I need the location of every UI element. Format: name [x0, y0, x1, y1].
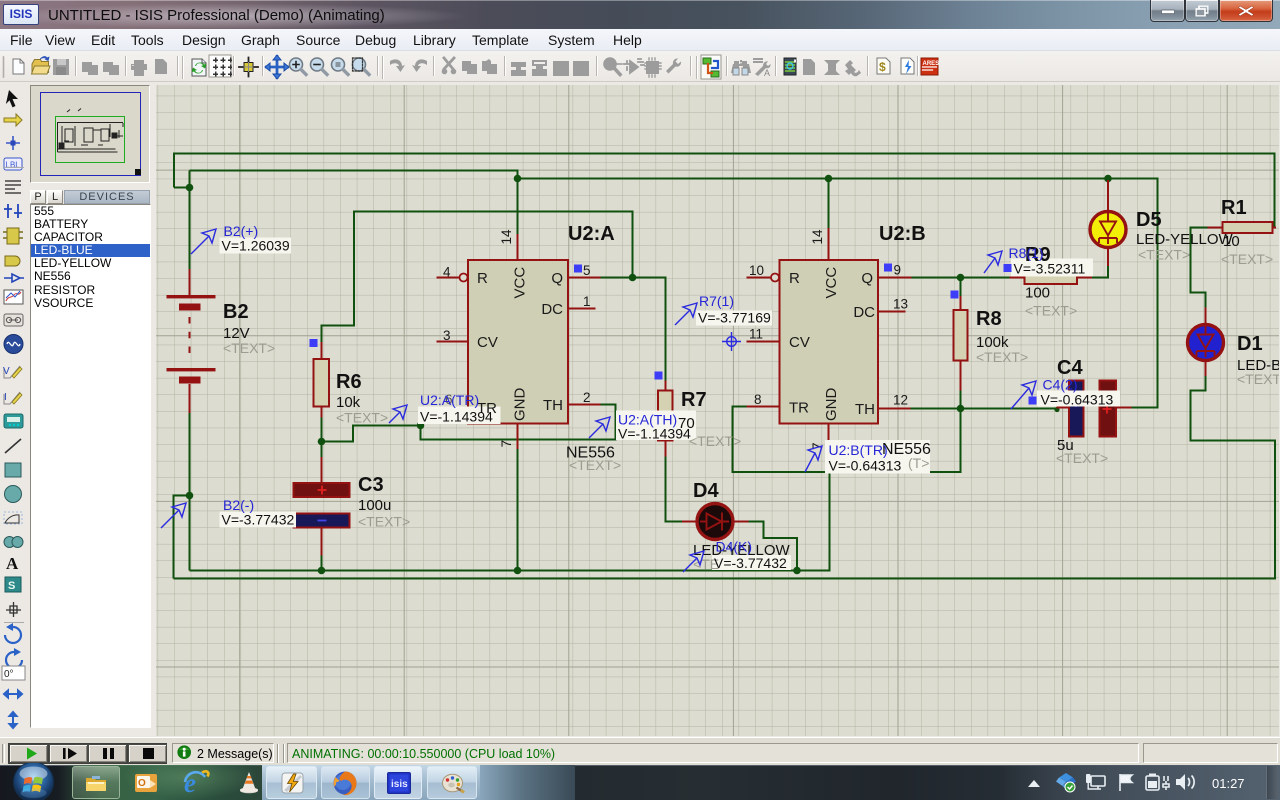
svg-text:$: $: [879, 60, 886, 74]
chip U2:B body: [780, 260, 879, 424]
handle R7: [655, 372, 663, 380]
svg-text:CV: CV: [477, 334, 498, 351]
svg-text:(T>: (T>: [908, 455, 929, 471]
handle R9: [1004, 264, 1012, 272]
capacitor C4 plus plate: [1100, 381, 1117, 437]
refresh: [192, 59, 206, 76]
svg-text:0°: 0°: [4, 669, 14, 680]
wire U2:B TH pin12 to junction: [911, 408, 961, 410]
resistor R8 leads: [960, 296, 962, 391]
U2:B R bubble: [771, 274, 779, 282]
svg-text:2: 2: [583, 390, 591, 405]
wire R9 right to D5: [1092, 266, 1108, 278]
junction at B2 top: [186, 184, 194, 192]
resistor R9 leads: [1010, 277, 1093, 279]
svg-text:GND: GND: [823, 388, 840, 422]
svg-text:R7: R7: [681, 389, 707, 411]
svg-text:<TEXT>: <TEXT>: [976, 349, 1028, 365]
junction R6/C3/TR: [318, 438, 326, 446]
svg-text:LED-YELLOW: LED-YELLOW: [1136, 231, 1234, 248]
svg-text:<TEXT>: <TEXT>: [1056, 450, 1108, 466]
binoculars: [731, 60, 751, 75]
U2:B VCC GND leads: [828, 228, 830, 446]
svg-text:5: 5: [583, 263, 591, 278]
junction U2:A GND ground: [514, 567, 522, 575]
svg-text:1: 1: [583, 294, 591, 309]
svg-text:<TEXT>: <TEXT>: [1025, 303, 1077, 319]
LED D1: [1188, 325, 1224, 361]
BOM: [877, 58, 890, 74]
svg-text:R8: R8: [976, 308, 1002, 330]
SCHEMATIC CANVAS: [156, 85, 1279, 736]
ERC: [901, 58, 914, 74]
wire TR branch down to TH pin2: [421, 405, 616, 440]
battery B2 plates: [167, 295, 216, 384]
undo redo: [390, 57, 681, 77]
svg-text:R6: R6: [336, 371, 362, 393]
probe name labels blue: [223, 223, 1078, 555]
svg-text:I: I: [4, 392, 7, 403]
svg-text:VCC: VCC: [823, 267, 840, 299]
svg-text:4: 4: [443, 265, 451, 280]
svg-text:R: R: [789, 270, 800, 287]
svg-text:100: 100: [1025, 285, 1050, 302]
chip pin names and numbers: [477, 267, 875, 421]
wire lower ground rail to D1: [174, 376, 1276, 579]
junction TR/TH node: [417, 422, 425, 430]
router pressed: [701, 55, 721, 79]
svg-text:C4(2): C4(2): [1043, 377, 1078, 393]
battery B2 leads: [189, 269, 191, 295]
capacitor C3 plus plate: [294, 483, 350, 497]
wire junction to R7 top: [633, 278, 666, 381]
junction Q9/R8/R9 node: [957, 274, 965, 282]
resistor R7 body: [658, 391, 673, 441]
battery B2 dashes: [189, 317, 191, 353]
wire R1 left to D1 top: [1191, 228, 1208, 308]
DEVICES: [30, 190, 46, 204]
handle R6: [310, 339, 318, 347]
resistor R9 body: [1025, 271, 1078, 284]
svg-text:V=-3.77432: V=-3.77432: [222, 512, 295, 528]
svg-text:A: A: [6, 554, 19, 573]
svg-text:<TEXT: <TEXT: [1237, 371, 1279, 387]
wire B down-stub to B2: [189, 171, 191, 188]
svg-text:13: 13: [893, 297, 908, 312]
svg-text:12: 12: [893, 393, 908, 408]
resistor R7 leads: [665, 381, 667, 457]
svg-text:14: 14: [810, 229, 825, 245]
svg-text:U2:A(TR): U2:A(TR): [420, 392, 479, 408]
handle R8: [951, 291, 959, 299]
svg-text:O: O: [138, 778, 146, 789]
wire upper ground rail: [190, 446, 830, 571]
junction Q1/R7 node: [629, 274, 637, 282]
svg-text:TH: TH: [543, 397, 563, 414]
probe arrow B2(+): [191, 229, 216, 254]
svg-text:<TEXT>: <TEXT>: [336, 410, 388, 426]
wire R6 top to net Q1: [322, 212, 633, 343]
wire B2 top lead: [189, 188, 191, 270]
svg-text:11: 11: [749, 327, 763, 342]
svg-text:V: V: [3, 366, 10, 377]
svg-text:V=-0.64313: V=-0.64313: [1041, 392, 1114, 408]
svg-text:<TEXT>: <TEXT>: [1221, 251, 1273, 267]
pan: [267, 57, 288, 78]
svg-text:9: 9: [894, 263, 902, 278]
junction TH12/R8/C4 node: [957, 405, 965, 413]
LEFT COLUMN ICONS: [0, 82, 28, 737]
capacitor C4 leads: [1057, 407, 1132, 409]
svg-text:V=1.26039: V=1.26039: [222, 238, 290, 254]
junction D4 ground: [793, 567, 801, 575]
chip U2:A body: [468, 260, 568, 424]
svg-text:A: A: [764, 68, 770, 78]
svg-text:<TEXT>: <TEXT>: [1138, 247, 1190, 263]
svg-text:isis: isis: [391, 779, 408, 790]
probe arrow C4(2): [1011, 381, 1036, 409]
wire C3 bottom: [321, 556, 323, 571]
property tool: [754, 59, 762, 62]
grid pressed: [209, 55, 231, 77]
origin: [239, 58, 258, 77]
wire U2:B VCC drop: [828, 179, 830, 229]
wire D4 right to ground rail: [749, 522, 798, 571]
U2:B pin leads: [747, 278, 912, 409]
tray icons: [1026, 778, 1042, 790]
chip type labels: [566, 441, 931, 462]
svg-text:10k: 10k: [336, 394, 361, 411]
import/export: [82, 59, 167, 76]
probe arrow U2:A(TR): [389, 405, 407, 423]
svg-text:<TEXT>: <TEXT>: [358, 514, 410, 530]
LED D4: [697, 504, 733, 540]
wire U2:A VCC drop: [517, 179, 519, 235]
svg-text:V=-1.14394: V=-1.14394: [420, 409, 493, 425]
wire R7 bottom to D4: [666, 457, 683, 522]
svg-text:TR: TR: [789, 400, 809, 417]
ARES: [921, 58, 938, 75]
svg-text:DC: DC: [541, 301, 563, 318]
svg-text:U2:A: U2:A: [568, 223, 615, 245]
svg-text:V=-3.52311: V=-3.52311: [1014, 261, 1086, 277]
start orb: [12, 763, 56, 800]
grey TEXT placeholders: [223, 247, 1280, 573]
MINIMAP: [30, 85, 150, 183]
svg-text:<TEXT>: <TEXT>: [689, 433, 741, 449]
svg-text:B2: B2: [223, 301, 249, 323]
handle U2:A Q wire: [574, 265, 582, 273]
probe value labels: [222, 238, 1114, 572]
wire U2:B TR pin8: [733, 407, 961, 473]
junction U2:B VCC rail: [825, 175, 833, 183]
U2:A R bubble: [460, 274, 468, 282]
wire top rail A: [174, 154, 1275, 228]
svg-text:Q: Q: [861, 270, 873, 287]
wire TR branch up to pin6: [421, 408, 437, 426]
wire R6 bottom: [321, 418, 323, 442]
junction U2:A VCC rail: [514, 175, 522, 183]
svg-text:<TEXT>: <TEXT>: [569, 457, 621, 473]
probe arrow U2:B(TR): [805, 446, 822, 472]
capacitor C3 leads: [321, 457, 323, 556]
svg-text:S: S: [8, 580, 15, 592]
svg-text:CV: CV: [789, 334, 810, 351]
svg-text:LBL: LBL: [6, 161, 21, 170]
svg-text:Q: Q: [551, 270, 563, 287]
svg-text:R7(1): R7(1): [699, 293, 734, 309]
svg-text:V=-3.77432: V=-3.77432: [714, 555, 787, 571]
component value labels: [223, 231, 1280, 559]
U2:A pin leads: [437, 278, 601, 408]
svg-text:U2:B: U2:B: [879, 223, 926, 245]
capacitor C3 minus plate: [294, 514, 350, 528]
svg-text:ARES: ARES: [923, 61, 940, 67]
wire B2 branch to lower rail: [174, 496, 190, 579]
resistor R1 leads: [1208, 227, 1277, 229]
new: [13, 59, 24, 74]
major grid lines: [156, 85, 1279, 736]
svg-text:U2:B(TR): U2:B(TR): [829, 442, 888, 458]
handle C4 probe: [1029, 397, 1037, 405]
svg-text:TH: TH: [855, 401, 875, 418]
svg-text:VCC: VCC: [512, 267, 529, 299]
wire rail B: [190, 171, 1158, 408]
svg-text:V=-1.14394: V=-1.14394: [618, 426, 691, 442]
junction B2 bottom: [186, 492, 194, 500]
TASKBAR: [0, 765, 1280, 800]
wire C3 top: [321, 442, 323, 458]
junction C3 ground: [318, 567, 326, 575]
U2:A VCC GND leads: [517, 234, 519, 449]
wire R8 bottom: [960, 391, 962, 409]
wire U2:A GND drop: [517, 449, 519, 571]
capacitor C4 minus plate: [1069, 381, 1084, 437]
wire Q pin5 to junction: [601, 277, 633, 279]
svg-text:10: 10: [749, 263, 764, 278]
svg-text:R: R: [477, 270, 488, 287]
svg-text:3: 3: [443, 328, 451, 343]
svg-text:7: 7: [499, 440, 514, 448]
svg-text:V=-3.77169: V=-3.77169: [698, 310, 771, 326]
zoom icons: [290, 58, 370, 75]
open: [32, 60, 49, 73]
svg-text:DC: DC: [853, 304, 875, 321]
svg-text:100u: 100u: [358, 497, 391, 514]
svg-text:GND: GND: [512, 388, 529, 422]
D5 leads: [1107, 180, 1109, 266]
wire junction to C4 left: [961, 408, 1057, 410]
probe arrow B2(-): [161, 503, 186, 528]
save: [53, 59, 69, 75]
probe dot C4 lead: [1054, 407, 1059, 412]
wire A left join to B2: [174, 187, 190, 189]
junction D5 rail: [1104, 175, 1112, 183]
svg-text:<TEXT>: <TEXT>: [223, 340, 275, 356]
wire Q pin9 to R9: [912, 277, 1010, 279]
taskbar buttons: [72, 766, 120, 799]
svg-text:R8(1): R8(1): [1009, 245, 1044, 261]
svg-text:V=-0.64313: V=-0.64313: [829, 458, 902, 474]
handle U2:B Q wire: [884, 264, 892, 272]
probe arrow D4(K): [683, 551, 704, 572]
probe arrow U2:A(TH): [589, 417, 610, 438]
LED D5: [1090, 212, 1126, 248]
probe label white boxes: [220, 238, 1121, 571]
svg-text:D1: D1: [1237, 333, 1263, 355]
design explorer: [784, 58, 796, 75]
component reference labels: [223, 197, 1263, 502]
svg-text:C3: C3: [358, 474, 384, 496]
svg-text:14: 14: [499, 229, 514, 245]
svg-text:D4(K): D4(K): [716, 539, 753, 555]
resistor R8 body: [954, 310, 968, 361]
D1 leads: [1205, 308, 1207, 377]
svg-text:8: 8: [754, 392, 762, 407]
D4 leads: [682, 521, 749, 523]
origin marker: [722, 332, 741, 351]
wire R8 top: [960, 278, 962, 297]
resistor R6 leads: [321, 342, 323, 418]
probe arrow R8(1): [984, 251, 1002, 273]
svg-text:D5: D5: [1136, 209, 1162, 231]
TOOLBAR ICONS: [0, 51, 960, 82]
wire B2 bottom: [189, 413, 191, 571]
probe arrow R7(1): [675, 303, 697, 325]
resistor R1 body: [1223, 222, 1273, 233]
wire TR net from R6/C3 junction: [322, 426, 421, 442]
STATUS BAR: [0, 737, 1280, 765]
svg-text:D4: D4: [693, 480, 719, 502]
svg-text:R1: R1: [1221, 197, 1247, 219]
resistor R6 body: [314, 359, 330, 407]
